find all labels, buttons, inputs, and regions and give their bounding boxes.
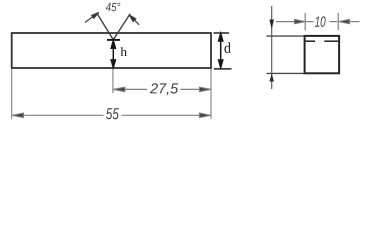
- dimension 27,5: [114, 87, 211, 91]
- notch root tick: [107, 39, 120, 41]
- angle arrow left: [85, 12, 99, 22]
- dimension h arrow: [111, 41, 115, 68]
- height top extension line: [267, 35, 305, 37]
- height bottom extension line: [267, 72, 305, 74]
- height top arrowhead: [269, 20, 274, 30]
- end view square: [305, 36, 340, 73]
- V-notch right flank: [113, 14, 130, 40]
- V-notch left flank: [97, 14, 113, 40]
- label 10: [315, 16, 326, 27]
- label 55: [106, 108, 119, 119]
- bar outline (side view): [12, 33, 211, 68]
- label 45 degrees: [106, 3, 121, 12]
- label 27,5: [150, 83, 178, 95]
- dimension 55: [12, 113, 211, 117]
- label d: [225, 42, 231, 53]
- d bottom extension line: [214, 68, 232, 70]
- dimension d arrow: [219, 33, 223, 67]
- height dimension line (end view): [271, 6, 273, 89]
- d top extension line: [214, 32, 230, 34]
- dimension 10: [276, 20, 360, 24]
- extension line left (x=12): [11, 69, 13, 119]
- 10 right extension tick: [337, 13, 339, 30]
- 10 left extension tick: [304, 13, 306, 30]
- notch root line left segment (end view): [305, 40, 316, 42]
- height bottom arrowhead: [269, 74, 274, 82]
- angle arrow right: [129, 15, 139, 25]
- notch root line right segment (end view): [324, 40, 339, 42]
- label h: [121, 47, 127, 56]
- extension line notch centre (x=113): [112, 69, 114, 93]
- extension line right (x=211): [210, 69, 212, 119]
